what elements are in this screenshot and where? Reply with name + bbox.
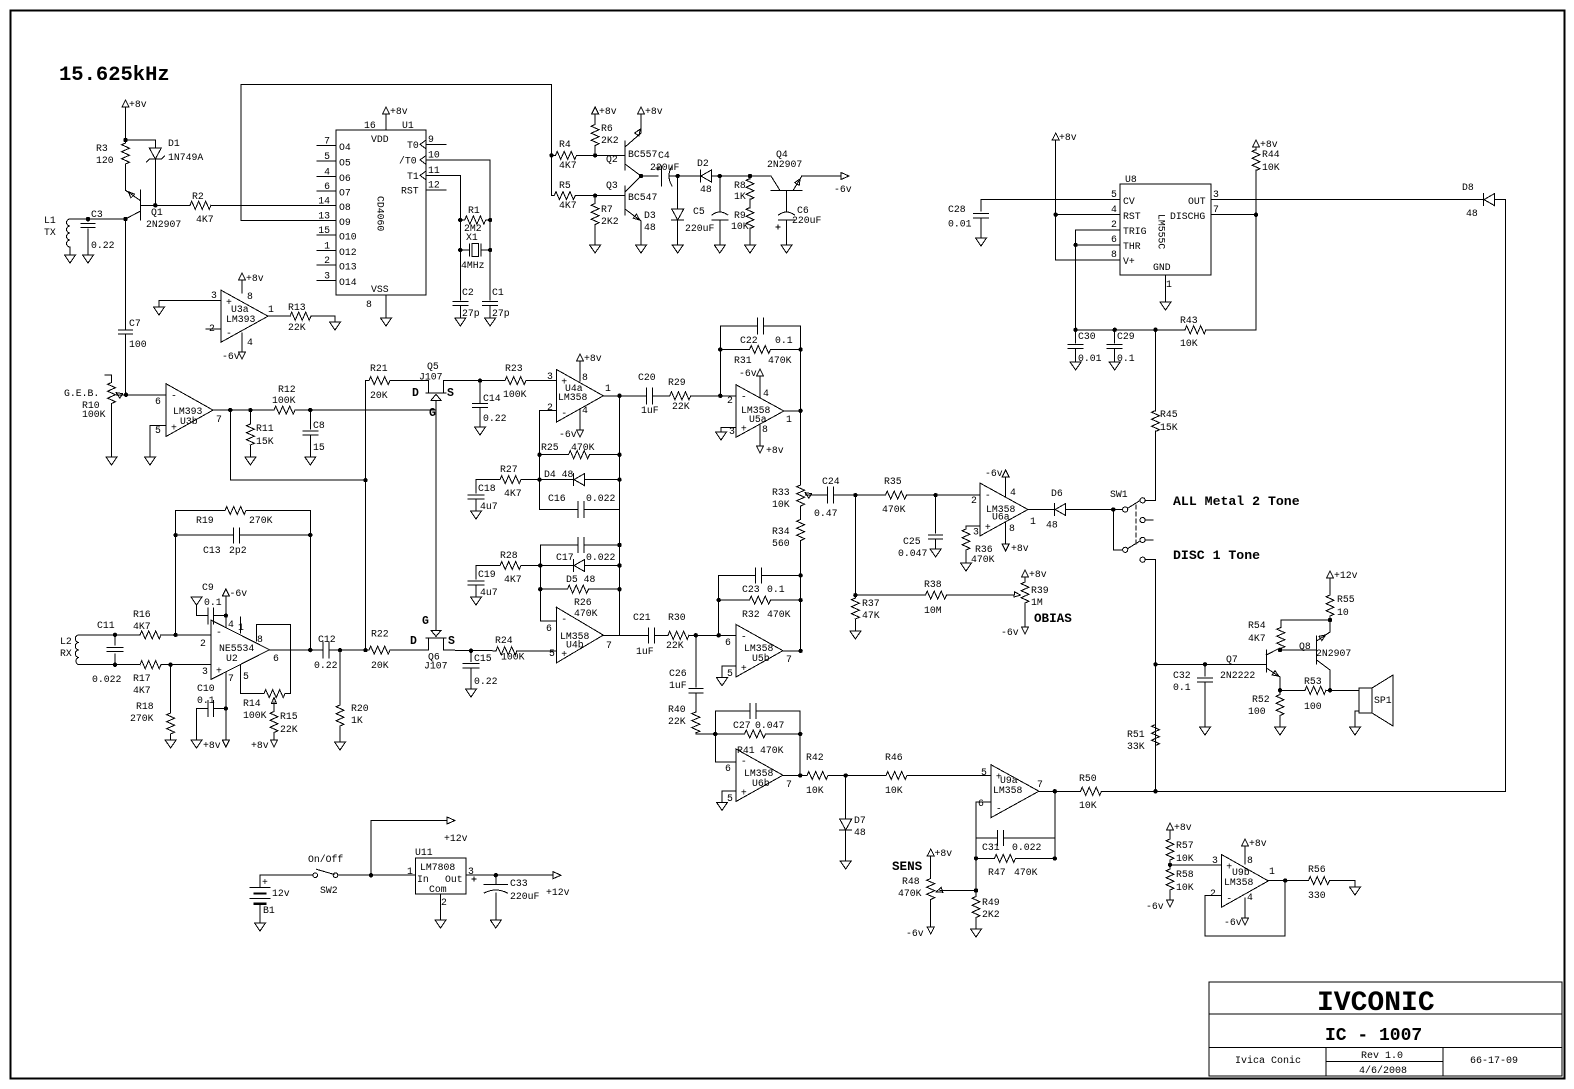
ground at U3a pin3 <box>154 307 165 315</box>
svg-text:0.01: 0.01 <box>1078 353 1102 364</box>
svg-text:L2: L2 <box>60 636 72 647</box>
node R30/C26 <box>694 633 698 637</box>
diode D3 48 to ground <box>677 176 679 209</box>
svg-text:DISC 1 Tone: DISC 1 Tone <box>1173 548 1260 563</box>
node after C4 <box>676 174 680 178</box>
switch SW1 contact C <box>1140 537 1145 542</box>
diode D5 48 <box>538 563 542 567</box>
svg-text:1: 1 <box>1166 279 1172 290</box>
svg-text:+8v: +8v <box>203 740 221 751</box>
wire U11 out <box>466 874 553 876</box>
op-amp U9b LM358 <box>1221 854 1268 907</box>
svg-text:4K7: 4K7 <box>559 160 577 171</box>
svg-text:Com: Com <box>429 884 447 895</box>
svg-text:4: 4 <box>1111 204 1117 215</box>
svg-text:D7: D7 <box>854 815 866 826</box>
svg-text:BC557: BC557 <box>628 149 658 160</box>
resistor R55 10 <box>1327 571 1334 578</box>
svg-text:D5 48: D5 48 <box>566 574 596 585</box>
resistor R45 15K <box>1155 330 1157 411</box>
U9a output pin7 <box>1039 790 1055 792</box>
switch SW1 common pole upper <box>1123 507 1128 512</box>
svg-text:Q5: Q5 <box>427 361 439 372</box>
U4b pin6 wire from rail <box>540 589 556 621</box>
resistor R36 470K <box>962 529 970 550</box>
svg-text:R24: R24 <box>495 635 513 646</box>
ground under R49 <box>971 929 982 937</box>
svg-text:100K: 100K <box>272 395 296 406</box>
potentiometer R14 100K <box>264 690 285 698</box>
svg-text:4/6/2008: 4/6/2008 <box>1359 1065 1407 1077</box>
wire R35 to U6a pin2 <box>907 494 980 496</box>
U6b feedback: R41 470K <box>713 732 717 736</box>
svg-text:4: 4 <box>324 167 330 178</box>
svg-text:G: G <box>422 615 429 628</box>
svg-text:12: 12 <box>428 180 440 191</box>
svg-text:+8v: +8v <box>584 353 602 364</box>
svg-text:20K: 20K <box>370 390 388 401</box>
svg-text:1N749A: 1N749A <box>168 152 203 163</box>
svg-text:8: 8 <box>257 634 263 645</box>
svg-text:4u7: 4u7 <box>480 587 498 598</box>
wire U3b out down and right to R21 rail <box>230 410 365 480</box>
svg-text:7: 7 <box>786 779 792 790</box>
U1 pin 16 VDD power +8v <box>385 114 387 130</box>
svg-text:1: 1 <box>324 241 330 252</box>
svg-text:2N2907: 2N2907 <box>1316 648 1351 659</box>
svg-text:-6v: -6v <box>230 588 248 599</box>
svg-text:120: 120 <box>96 155 114 166</box>
wire U6b rails <box>715 711 800 776</box>
svg-text:3: 3 <box>973 527 979 538</box>
svg-text:100: 100 <box>129 339 147 350</box>
svg-text:VDD: VDD <box>371 134 389 145</box>
ground under R18 <box>165 740 176 748</box>
svg-text:GND: GND <box>1153 262 1171 273</box>
svg-text:R37: R37 <box>862 598 880 609</box>
svg-text:4u7: 4u7 <box>480 501 498 512</box>
capacitor C19 4u7 <box>476 565 489 567</box>
svg-text:D3: D3 <box>644 210 656 221</box>
svg-text:R6: R6 <box>601 123 613 134</box>
svg-text:7: 7 <box>1037 779 1043 790</box>
svg-text:U4b: U4b <box>566 640 584 651</box>
svg-text:R19: R19 <box>196 515 214 526</box>
svg-text:-: - <box>985 490 991 501</box>
svg-text:0.22: 0.22 <box>314 660 338 671</box>
svg-text:1: 1 <box>1030 516 1036 527</box>
resistor R15 22K <box>270 711 278 733</box>
svg-text:C33: C33 <box>510 878 528 889</box>
svg-text:-6v: -6v <box>1146 901 1164 912</box>
capacitor C16 0.022 <box>540 509 620 511</box>
resistor R11 15K <box>248 408 252 412</box>
svg-text:48: 48 <box>1466 208 1478 219</box>
svg-text:O9: O9 <box>339 217 351 228</box>
svg-text:3: 3 <box>547 371 553 382</box>
U6a pin 4 power -6v top <box>1005 477 1007 496</box>
svg-text:R18: R18 <box>136 701 154 712</box>
svg-text:R13: R13 <box>288 302 306 313</box>
U1 right pin 12 RST <box>426 189 446 191</box>
svg-text:D: D <box>410 635 417 648</box>
svg-text:+: + <box>561 649 567 660</box>
capacitor C6 220uF polarized <box>786 191 788 212</box>
svg-text:R34: R34 <box>772 526 790 537</box>
wire Q6 gate up to U3b output row <box>435 410 437 621</box>
svg-text:+8v: +8v <box>935 848 953 859</box>
svg-text:C1: C1 <box>492 287 504 298</box>
resistor R34 560 <box>800 507 802 519</box>
svg-text:O10: O10 <box>339 232 357 243</box>
resistor R7 2K2 <box>591 203 599 225</box>
svg-text:560: 560 <box>772 538 790 549</box>
svg-text:SENS: SENS <box>892 860 923 874</box>
svg-text:4K7: 4K7 <box>1248 633 1266 644</box>
svg-text:8: 8 <box>1009 523 1015 534</box>
svg-text:0.01: 0.01 <box>948 219 972 230</box>
op-amp U4a LM358 <box>556 369 603 422</box>
capacitor C4 220uF polarized <box>661 166 663 186</box>
svg-text:100K: 100K <box>82 409 106 420</box>
op-amp U6a LM358 <box>980 483 1028 536</box>
svg-text:220uF: 220uF <box>510 891 540 902</box>
U6b pin5 ground hook <box>722 791 736 803</box>
svg-text:R21: R21 <box>370 363 388 374</box>
resistor R49 2K2 <box>975 891 977 896</box>
U8 pin 4 RST wire <box>1054 213 1058 217</box>
svg-text:2K2: 2K2 <box>601 216 619 227</box>
svg-text:48: 48 <box>700 184 712 195</box>
wire Q5 source to C14/R23 <box>444 380 506 382</box>
capacitor C20 1uF <box>646 388 652 404</box>
svg-text:470K: 470K <box>882 504 906 515</box>
svg-text:1uF: 1uF <box>636 646 654 657</box>
svg-text:RX: RX <box>60 648 72 659</box>
svg-text:C9: C9 <box>202 582 214 593</box>
svg-text:O5: O5 <box>339 158 351 169</box>
svg-text:15: 15 <box>318 225 330 236</box>
capacitor C30 0.01 <box>1073 328 1077 332</box>
svg-text:5: 5 <box>981 767 987 778</box>
resistor R43 10K <box>1185 326 1206 334</box>
op-amp U2 NE5534 <box>211 620 270 679</box>
svg-text:100K: 100K <box>501 652 525 663</box>
wire R23 to U4a pin3 <box>526 380 556 382</box>
svg-text:R48: R48 <box>902 876 920 887</box>
potentiometer R10 100K G.E.B. <box>105 375 112 382</box>
svg-text:-6v: -6v <box>1224 917 1242 928</box>
U3b output pin 7 wire <box>213 409 230 411</box>
U9a pin6 wire to feedback rail <box>976 801 991 803</box>
svg-text:100: 100 <box>1248 706 1266 717</box>
resistor R52 100 <box>1276 694 1284 716</box>
wire R22 to Q6 drain <box>390 649 429 651</box>
ground at U3b pin5 <box>145 457 156 465</box>
svg-text:2: 2 <box>971 495 977 506</box>
svg-text:R14: R14 <box>243 698 261 709</box>
transistor Q7 2N2222 <box>1266 648 1280 677</box>
svg-text:+: + <box>985 522 991 533</box>
wire SW1 contact D down rail <box>1155 560 1157 792</box>
resistor R6 2K2 <box>594 114 596 124</box>
svg-text:2: 2 <box>441 897 447 908</box>
svg-text:16: 16 <box>364 120 376 131</box>
svg-text:R45: R45 <box>1160 409 1178 420</box>
wire SW2 to U11 with +12v riser <box>338 874 416 876</box>
svg-text:G.E.B.: G.E.B. <box>64 388 99 399</box>
svg-text:0.47: 0.47 <box>814 508 838 519</box>
U5a pin 4 power -6v top <box>759 377 761 398</box>
svg-text:2: 2 <box>1210 888 1216 899</box>
resistor R51 33K <box>1153 662 1157 666</box>
svg-text:+8v: +8v <box>390 106 408 117</box>
node R4 junction on loop rail <box>549 153 553 157</box>
ground under D3 <box>672 245 683 253</box>
svg-text:SP1: SP1 <box>1374 695 1392 706</box>
U1 left pins O4-O14 <box>317 145 336 147</box>
ground under C2 <box>455 318 466 326</box>
U5b pin5 ground hook <box>722 666 736 678</box>
svg-text:C7: C7 <box>129 318 141 329</box>
svg-text:470K: 470K <box>574 608 598 619</box>
ground at C10 <box>191 740 202 748</box>
svg-text:8: 8 <box>1247 855 1253 866</box>
wire R21 to Q5 drain <box>390 380 429 382</box>
svg-text:R25: R25 <box>541 442 559 453</box>
resistor R19 270K <box>176 510 225 512</box>
svg-text:10K: 10K <box>731 221 749 232</box>
resistor R46 10K <box>846 775 886 777</box>
svg-text:0.22: 0.22 <box>483 413 507 424</box>
svg-text:8: 8 <box>247 291 253 302</box>
IC U1 CD4060 box <box>336 130 426 295</box>
diode D6 48 <box>1054 504 1056 516</box>
svg-text:8: 8 <box>1111 249 1117 260</box>
wire R57 node to U9b pin3 <box>1170 864 1221 866</box>
svg-text:D6: D6 <box>1051 488 1063 499</box>
svg-text:47K: 47K <box>862 610 880 621</box>
svg-text:TX: TX <box>44 227 56 238</box>
wire C11 to R16/R17 <box>115 634 140 636</box>
resistor R47 470K feedback <box>974 856 978 860</box>
svg-text:VSS: VSS <box>371 284 389 295</box>
svg-text:TRIG: TRIG <box>1123 226 1147 237</box>
resistor R53 100 <box>1280 689 1305 691</box>
svg-text:OUT: OUT <box>1188 196 1206 207</box>
svg-text:IC - 1007: IC - 1007 <box>1325 1026 1422 1046</box>
svg-text:R2: R2 <box>192 191 204 202</box>
svg-text:-: - <box>561 408 567 419</box>
svg-text:R27: R27 <box>500 464 518 475</box>
svg-text:C24: C24 <box>822 476 840 487</box>
svg-text:6: 6 <box>273 653 279 664</box>
svg-text:R52: R52 <box>1252 694 1270 705</box>
svg-text:2N2907: 2N2907 <box>767 159 802 170</box>
svg-text:U6a: U6a <box>992 512 1010 523</box>
svg-text:R12: R12 <box>278 384 296 395</box>
svg-text:LM358: LM358 <box>993 785 1023 796</box>
svg-text:100K: 100K <box>503 389 527 400</box>
svg-text:1uF: 1uF <box>669 680 687 691</box>
U9b feedback loop pin2 <box>1205 881 1285 937</box>
transistor Q2 BC557 <box>625 114 641 176</box>
+12v arrow at riser <box>447 817 455 824</box>
svg-text:470K: 470K <box>971 554 995 565</box>
IC U11 LM7808 <box>415 858 466 894</box>
U3a output pin 1 wire <box>268 315 290 317</box>
svg-text:D4 48: D4 48 <box>544 469 574 480</box>
svg-text:C4: C4 <box>658 150 670 161</box>
ground under R11 <box>245 457 256 465</box>
svg-text:4MHz: 4MHz <box>461 260 485 271</box>
svg-text:0.047: 0.047 <box>898 548 928 559</box>
svg-text:C12: C12 <box>318 634 336 645</box>
svg-text:3: 3 <box>211 290 217 301</box>
svg-text:+8v: +8v <box>1059 132 1077 143</box>
svg-text:14: 14 <box>318 195 330 206</box>
svg-text:On/Off: On/Off <box>308 854 343 865</box>
svg-text:-6v: -6v <box>559 429 577 440</box>
svg-text:C27: C27 <box>733 720 751 731</box>
U3a pin 8 power +8v <box>241 280 243 293</box>
U3b pin 5 ground hook <box>150 425 166 457</box>
svg-text:ALL Metal 2 Tone: ALL Metal 2 Tone <box>1173 494 1300 509</box>
svg-text:R11: R11 <box>256 423 274 434</box>
resistor R1 2M2 <box>458 218 462 222</box>
JFET Q6 J107 <box>426 638 446 650</box>
capacitor C12 0.22 <box>310 649 340 651</box>
svg-text:R47: R47 <box>988 867 1006 878</box>
U1 right pin 11 T1 <box>426 174 460 176</box>
svg-text:SW2: SW2 <box>320 885 338 896</box>
wire U5b left rail <box>719 575 801 651</box>
wire D8 to R50 row right rail <box>1495 200 1506 792</box>
svg-text:6: 6 <box>978 798 984 809</box>
svg-text:33K: 33K <box>1127 741 1145 752</box>
wire U5a out down to R33 <box>800 411 802 484</box>
svg-text:+8v: +8v <box>1174 822 1192 833</box>
ground under C19 <box>471 597 482 605</box>
node G.E.B. junction <box>124 393 128 397</box>
capacitor C8 15 <box>309 410 311 429</box>
svg-text:4K7: 4K7 <box>504 488 522 499</box>
svg-text:0.1: 0.1 <box>197 695 215 706</box>
ground under D7 <box>840 861 851 869</box>
svg-text:6: 6 <box>725 637 731 648</box>
svg-text:11: 11 <box>428 165 440 176</box>
svg-text:-6v: -6v <box>906 928 924 939</box>
wire R29 to U5a pin2 <box>691 395 736 397</box>
switch SW2 On/Off <box>260 874 313 876</box>
svg-text:-: - <box>741 392 747 403</box>
node C12/R20/R22 <box>338 648 342 652</box>
svg-text:D: D <box>412 387 419 400</box>
capacitor C13 2p2 <box>176 534 311 536</box>
capacitor C21 1uF <box>648 628 654 643</box>
svg-text:C2: C2 <box>462 287 474 298</box>
U4a output pin 1 <box>603 395 619 397</box>
resistor R54 4K7 <box>1277 627 1285 649</box>
svg-text:470K: 470K <box>768 355 792 366</box>
svg-text:C14: C14 <box>483 393 501 404</box>
svg-text:R1: R1 <box>468 205 480 216</box>
U3a pin 4 power -6v <box>241 333 243 352</box>
svg-text:270K: 270K <box>249 515 273 526</box>
op-amp U5a LM358 <box>736 385 784 438</box>
svg-text:C3: C3 <box>91 209 103 220</box>
resistor R37 47K <box>853 593 857 597</box>
ground under C5 <box>714 245 725 253</box>
svg-text:-: - <box>171 391 177 402</box>
svg-text:O4: O4 <box>339 142 351 153</box>
U11 Com pin ground <box>440 894 442 920</box>
wire R2 to U1 pin 14 <box>211 204 336 206</box>
svg-text:R44: R44 <box>1262 149 1280 160</box>
svg-text:+: + <box>262 877 268 888</box>
U3a pin 2 stub <box>206 328 221 330</box>
svg-text:C5: C5 <box>693 206 705 217</box>
svg-text:+8v: +8v <box>1011 543 1029 554</box>
svg-text:C13: C13 <box>203 545 221 556</box>
U8 pin 7 DISCHG wire <box>1211 214 1256 216</box>
power +8v rail for U8 <box>1052 133 1059 140</box>
diode D7 48 <box>845 776 847 820</box>
svg-text:7: 7 <box>324 136 330 147</box>
capacitor C25 0.047 <box>935 495 937 533</box>
resistor R4 4K7 <box>554 151 578 159</box>
svg-text:R28: R28 <box>500 550 518 561</box>
svg-text:10K: 10K <box>885 785 903 796</box>
svg-text:4: 4 <box>247 337 253 348</box>
resistor R38 10M <box>855 594 925 596</box>
resistor R58 10K <box>1166 869 1174 890</box>
svg-text:1K: 1K <box>351 715 363 726</box>
ground under C18 <box>471 511 482 519</box>
zener diode D1 1N749A <box>149 148 161 159</box>
power +8v above R6 <box>592 107 599 114</box>
wire L1 to C3 to Q1 collector row <box>70 218 126 220</box>
wire R17 to U2 pin3 <box>161 664 211 666</box>
ground under B1 <box>255 923 266 931</box>
svg-text:22K: 22K <box>668 716 686 727</box>
svg-text:10M: 10M <box>924 605 942 616</box>
svg-text:0.1: 0.1 <box>1173 682 1191 693</box>
power +8v above R48 <box>927 849 934 856</box>
U5a pin 8 power +8v bottom <box>759 424 761 446</box>
transistor Q1 2N2907 <box>126 166 141 220</box>
resistor R3 120 <box>122 141 130 166</box>
ground under C3 <box>83 255 94 263</box>
node SENS R48/R49 <box>974 888 978 892</box>
svg-text:+12v: +12v <box>1334 570 1358 581</box>
capacitor C31 0.022 feedback <box>976 837 1055 839</box>
svg-text:0.022: 0.022 <box>1012 842 1042 853</box>
svg-text:-: - <box>226 328 232 339</box>
svg-text:S: S <box>448 635 455 648</box>
svg-text:2N2222: 2N2222 <box>1220 670 1255 681</box>
diode D2 48 <box>678 175 700 177</box>
inductor L1 TX coil <box>67 219 71 247</box>
svg-text:7: 7 <box>786 654 792 665</box>
svg-text:48: 48 <box>644 222 656 233</box>
svg-text:4: 4 <box>1247 892 1253 903</box>
capacitor C17 0.022 <box>540 544 619 546</box>
resistor R24 100K <box>496 647 517 655</box>
svg-text:10K: 10K <box>1180 338 1198 349</box>
svg-text:7: 7 <box>216 414 222 425</box>
resistor R13 22K <box>290 312 311 320</box>
